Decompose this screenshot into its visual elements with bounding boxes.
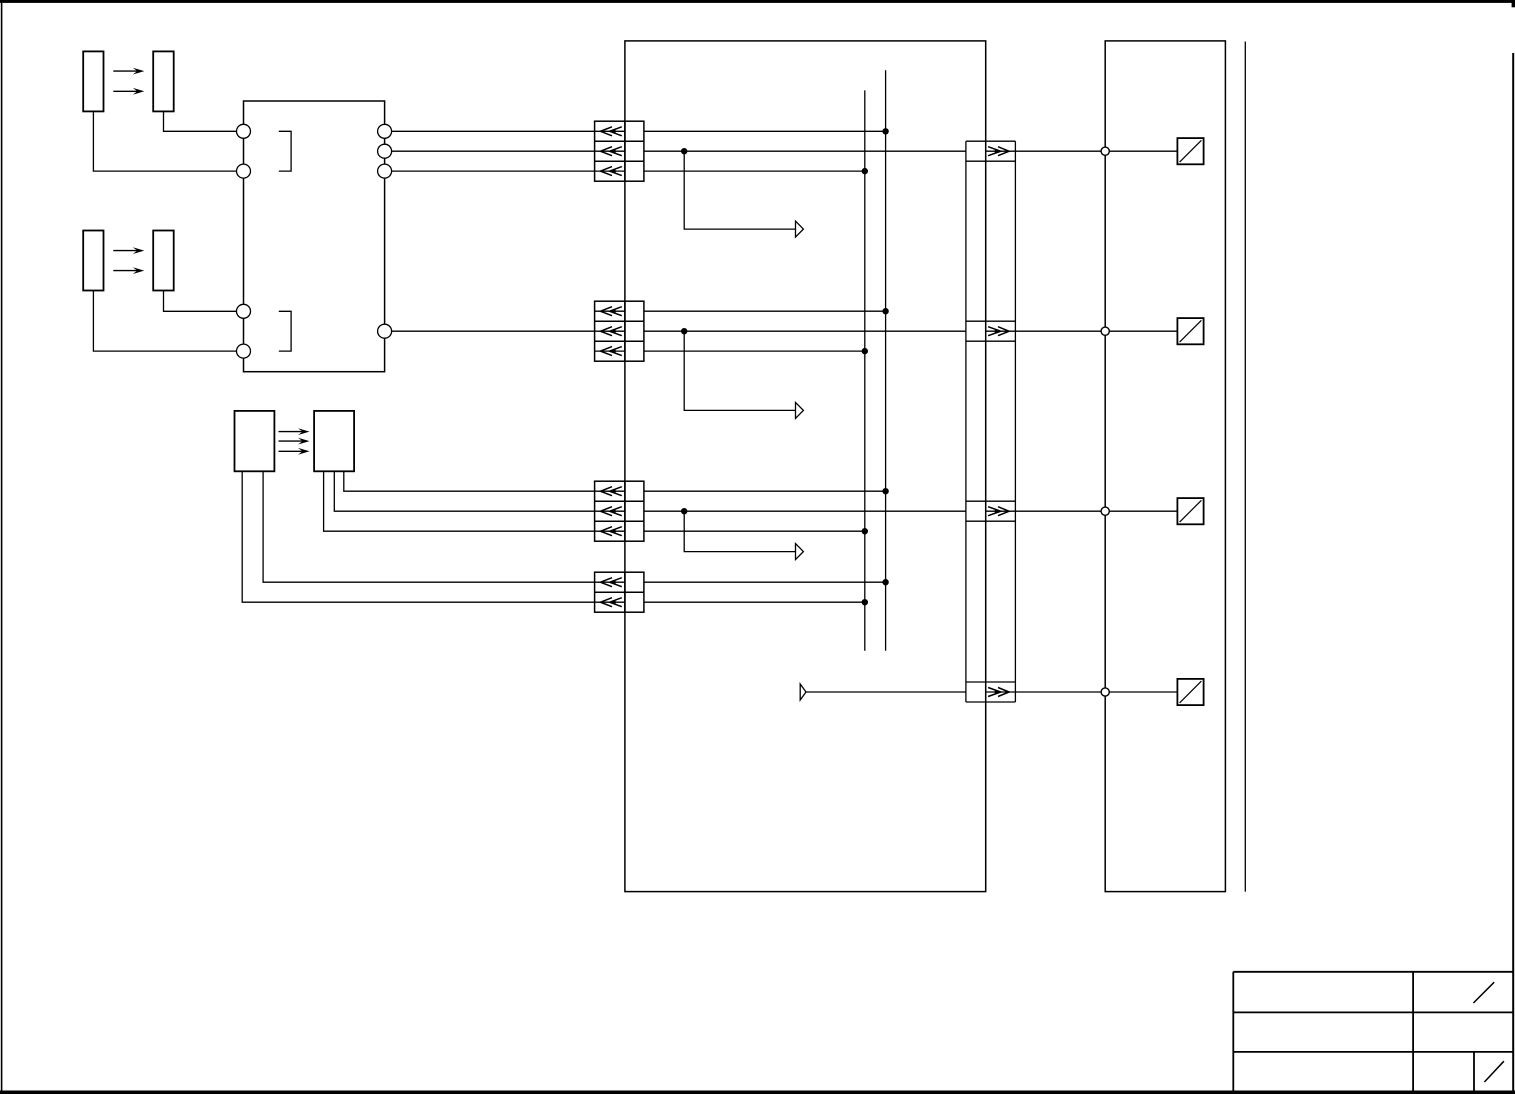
branch wire X3 row2 to arrow — [684, 511, 795, 551]
X1 input chevron row 2 — [595, 147, 625, 156]
title block slash bottom-right cell — [1484, 1061, 1504, 1082]
connector block X4 outline — [595, 572, 644, 612]
actuator M3 — [1177, 498, 1203, 524]
junction dot X2 row2 branch — [681, 328, 687, 334]
actuator M2 — [1177, 318, 1203, 344]
junction dot X1 row1 / bus2 — [882, 128, 888, 134]
X1 cell divider — [624, 121, 626, 181]
wire X4 row1 to bus2 — [644, 581, 886, 583]
port circle P4 — [1101, 688, 1109, 696]
title block row divider 1 — [1233, 1011, 1513, 1013]
wire Y1 to port circle — [1015, 150, 1101, 152]
X1 row divider 2 — [595, 160, 644, 162]
junction dot X1 row2 branch — [681, 148, 687, 154]
output block Y3 top edge — [966, 500, 1016, 502]
X2 input chevron row 1 — [595, 307, 625, 316]
frame left border — [1, 3, 3, 1091]
port circle P1 — [1101, 147, 1109, 155]
output block Y1 bottom edge — [966, 160, 1016, 162]
junction dot X3 row2 branch — [681, 508, 687, 514]
actuator M1 — [1177, 138, 1203, 164]
junction dot X1 row3 / bus1 — [862, 168, 868, 174]
wire arrow to Y4 — [806, 691, 966, 693]
X3 input chevron row 2 — [595, 507, 625, 516]
signal arrow A1-1 — [279, 428, 310, 435]
bus line 1 — [864, 90, 866, 650]
output block Y3 bottom edge — [966, 520, 1016, 522]
X4 input chevron row 2 — [595, 598, 625, 607]
junction dot X4 row1 / bus2 — [882, 579, 888, 585]
K1 terminal circle right 3 — [378, 164, 392, 178]
X4 row divider 1 — [595, 591, 644, 593]
K1 terminal circle right 2 — [378, 144, 392, 158]
sensor B2 transmitter — [83, 231, 103, 291]
off-page arrow X3 — [796, 544, 804, 560]
wire B1 receiver to K1 port 1 — [164, 111, 237, 131]
branch wire X1 row2 to arrow — [684, 151, 795, 229]
output block Y1 top edge — [966, 140, 1016, 142]
wire A2 pin2 to X3 row2 — [334, 471, 594, 511]
contact bracket K1 upper — [279, 131, 291, 171]
wire Y3 to port circle — [1015, 510, 1101, 512]
title block outline — [1233, 972, 1513, 1091]
output block Y2 bottom edge — [966, 340, 1016, 342]
K1 terminal circle left 1 — [237, 124, 251, 138]
wire A2 pin1 to X3 row1 — [344, 471, 595, 491]
PLC cabinet box — [625, 41, 986, 892]
wire P4 to actuator — [1109, 691, 1177, 693]
sensor B1 transmitter — [83, 51, 103, 111]
wire X3 row2 to output block — [644, 510, 966, 512]
safety relay K1 — [244, 101, 385, 372]
wire P2 to actuator — [1109, 330, 1177, 332]
X3 row divider 1 — [595, 500, 644, 502]
junction dot X2 row1 / bus2 — [882, 308, 888, 314]
X2 input chevron row 3 — [595, 347, 625, 356]
wire K1 right 1 to X1 row1 — [392, 130, 595, 132]
K1 terminal circle right 4 — [378, 324, 392, 338]
signal arrow A1-3 — [279, 448, 310, 455]
X3 input chevron row 3 — [595, 527, 625, 536]
wire X2 row3 to bus1 — [644, 350, 865, 352]
X2 row divider 2 — [595, 340, 644, 342]
wire P1 to actuator — [1109, 150, 1177, 152]
junction dot X3 row1 / bus2 — [882, 488, 888, 494]
wire B1 transmitter to K1 port 2 — [93, 111, 236, 171]
K1 terminal circle right 1 — [378, 124, 392, 138]
X1 input chevron row 3 — [595, 167, 625, 176]
wire Y4 to port circle — [1015, 691, 1101, 693]
wire B2 receiver to K1 port 3 — [164, 291, 237, 312]
output block Y4 top edge — [966, 681, 1016, 683]
signal arrow B1-2 — [113, 88, 144, 95]
title block slash top-right cell — [1473, 982, 1494, 1003]
wire A1 pin2 to X4 row2 — [242, 471, 594, 602]
title block bottom-row cell divider — [1473, 1052, 1475, 1091]
cable duct left line — [965, 141, 967, 702]
device A2 right — [314, 411, 354, 471]
output device box — [1105, 41, 1225, 892]
actuator M4 — [1177, 679, 1203, 705]
signal arrow B2-1 — [113, 247, 144, 254]
frame right border — [1512, 53, 1514, 1091]
cable duct right line — [1014, 141, 1016, 702]
K1 terminal circle left 3 — [237, 304, 251, 318]
title block row divider 2 — [1233, 1051, 1513, 1053]
wire P3 to actuator — [1109, 510, 1177, 512]
wire K1 right 3 to X1 row3 — [392, 170, 595, 172]
X4 cell divider — [624, 572, 626, 612]
output block Y4 bottom edge — [966, 701, 1016, 703]
wire K1 right 4 to X2 row2 — [392, 330, 595, 332]
connector block X2 outline — [595, 301, 644, 361]
connector block X3 outline — [595, 481, 644, 541]
wire X2 row1 to bus2 — [644, 310, 886, 312]
sensor B2 receiver — [153, 231, 174, 291]
port circle P3 — [1101, 507, 1109, 515]
junction dot X3 row3 / bus1 — [862, 528, 868, 534]
K1 terminal circle left 2 — [237, 164, 251, 178]
wire X1 row3 to bus1 — [644, 170, 865, 172]
output chevron Y4 — [986, 688, 1016, 697]
wire B2 transmitter to K1 port 4 — [93, 291, 236, 352]
signal arrow B1-1 — [113, 68, 144, 75]
off-page arrow X1 — [796, 221, 804, 237]
wire K1 right 2 to X1 row2 — [392, 150, 595, 152]
device A1 left — [235, 411, 275, 471]
wire X4 row2 to bus1 — [644, 601, 865, 603]
port circle P2 — [1101, 327, 1109, 335]
X1 row divider 1 — [595, 140, 644, 142]
wire A2 pin3 to X3 row3 — [324, 471, 595, 531]
frame bottom bar — [0, 1091, 1515, 1094]
wire X1 row2 to output block — [644, 150, 966, 152]
output chevron Y2 — [986, 327, 1016, 336]
output block Y2 top edge — [966, 320, 1016, 322]
frame top-right notch — [1512, 0, 1515, 7]
source arrow row4 — [800, 684, 806, 700]
sensor B1 receiver — [153, 51, 174, 111]
output chevron Y1 — [986, 147, 1016, 156]
X2 cell divider — [624, 301, 626, 361]
wire X2 row2 to output block — [644, 330, 966, 332]
branch wire X2 row2 to arrow — [684, 331, 795, 410]
K1 terminal circle left 4 — [237, 344, 251, 358]
signal arrow A1-2 — [279, 438, 310, 445]
wire A1 pin1 to X4 row1 — [263, 471, 594, 582]
output chevron Y3 — [986, 507, 1016, 516]
bus line 2 — [885, 70, 887, 651]
junction dot X2 row3 / bus1 — [862, 348, 868, 354]
wire X1 row1 to bus2 — [644, 130, 886, 132]
X1 input chevron row 1 — [595, 127, 625, 136]
frame top bar — [0, 0, 1515, 3]
X3 row divider 2 — [595, 520, 644, 522]
junction dot X4 row2 / bus1 — [862, 599, 868, 605]
X2 row divider 1 — [595, 320, 644, 322]
off-page arrow X2 — [796, 402, 804, 418]
X2 input chevron row 2 — [595, 327, 625, 336]
X3 input chevron row 1 — [595, 487, 625, 496]
separator line right — [1244, 42, 1246, 892]
wire X3 row3 to bus1 — [644, 530, 865, 532]
signal arrow B2-2 — [113, 267, 144, 274]
X4 input chevron row 1 — [595, 578, 625, 587]
wire Y2 to port circle — [1015, 330, 1101, 332]
wire X3 row1 to bus2 — [644, 490, 886, 492]
contact bracket K1 lower — [279, 311, 291, 351]
connector block X1 outline — [595, 121, 644, 181]
title block column divider — [1412, 972, 1414, 1091]
X3 cell divider — [624, 481, 626, 541]
